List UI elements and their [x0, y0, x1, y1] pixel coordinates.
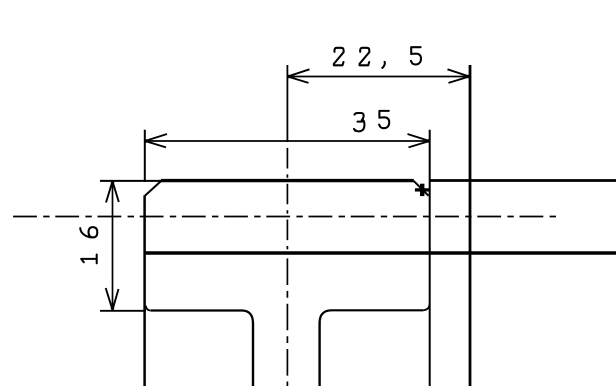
digit 5 [379, 111, 389, 128]
vertical center line (dash-dot) lower run [286, 258, 288, 386]
arrow left of 35 [145, 134, 167, 147]
fillet to right edge [423, 303, 429, 310]
point marker cross [415, 184, 430, 196]
dimension line 22.5 [287, 76, 469, 78]
stem right edge [318, 322, 320, 386]
arrow left of 22.5 [288, 69, 310, 83]
digit 3 [354, 113, 364, 131]
arrow right of 35 [408, 134, 430, 147]
digit 5 [411, 47, 421, 64]
arrow right of 22.5 [448, 69, 470, 83]
digit 1 [81, 255, 97, 264]
part outline: top edge [161, 179, 414, 182]
part edge / extension vertical x=429.7 [429, 130, 431, 386]
dimension text 22.5 [334, 47, 421, 68]
extension line for 35 left [144, 130, 146, 182]
comma [382, 62, 384, 68]
horizontal center line (dash-dot) [13, 216, 558, 218]
extension line for 22.5 at centerline [286, 65, 288, 142]
extension line 16 top [100, 180, 161, 182]
dimension text 16 (rotated) [80, 227, 97, 263]
dimension text 35 [354, 111, 389, 131]
dimension line 16 [112, 181, 114, 311]
fillet right stem [320, 310, 332, 322]
part outline: bore line [144, 251, 616, 254]
arrow top of 16 [106, 181, 119, 202]
fillet at part left edge to flange line [146, 306, 151, 311]
arrow bottom of 16 [106, 288, 119, 310]
chamfer right [414, 181, 429, 196]
stem left edge [252, 323, 254, 386]
part outline: lower flange right horizontal [331, 309, 423, 311]
extension line 16 bottom [100, 310, 146, 312]
part outline: top edge right portion [430, 179, 616, 182]
part outline: lower flange left horizontal with fillets [151, 309, 243, 311]
dimension line 35 [145, 140, 430, 142]
digit 2 [334, 48, 344, 66]
part edge vertical x=470 [469, 65, 472, 386]
vertical center line (dash-dot) upper run [286, 148, 288, 252]
digit 6 [80, 227, 97, 237]
fillet left stem [243, 311, 254, 324]
part outline: left edge [143, 195, 146, 386]
chamfer left [145, 181, 162, 196]
digit 2 [360, 48, 370, 66]
